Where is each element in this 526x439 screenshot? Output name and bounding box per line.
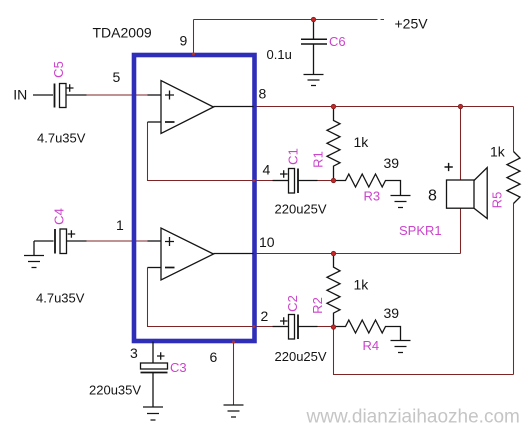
svg-text:6: 6: [210, 349, 218, 365]
svg-text:0.1u: 0.1u: [267, 47, 292, 62]
svg-text:220u35V: 220u35V: [89, 383, 141, 398]
svg-text:C5: C5: [51, 61, 66, 78]
svg-text:39: 39: [384, 305, 400, 321]
svg-text:5: 5: [113, 69, 121, 85]
svg-text:220u25V: 220u25V: [275, 349, 327, 364]
svg-text:3: 3: [130, 345, 138, 361]
svg-text:1k: 1k: [354, 134, 370, 150]
svg-text:39: 39: [384, 155, 400, 171]
svg-text:TDA2009: TDA2009: [93, 24, 152, 40]
svg-text:R5: R5: [490, 192, 505, 209]
svg-text:R1: R1: [311, 151, 326, 168]
svg-text:R3: R3: [364, 189, 381, 204]
svg-text:220u25V: 220u25V: [275, 202, 327, 217]
svg-text:4: 4: [263, 162, 271, 178]
svg-text:+25V: +25V: [395, 16, 429, 32]
svg-text:SPKR1: SPKR1: [399, 223, 442, 238]
svg-text:8: 8: [428, 188, 437, 205]
svg-text:C4: C4: [52, 208, 67, 225]
svg-text:C6: C6: [329, 34, 346, 49]
svg-text:10: 10: [259, 234, 275, 250]
svg-text:4.7u35V: 4.7u35V: [36, 291, 85, 306]
svg-text:R2: R2: [310, 297, 325, 314]
svg-text:1: 1: [116, 217, 124, 233]
svg-text:C3: C3: [170, 360, 187, 375]
svg-text:1k: 1k: [354, 277, 370, 293]
svg-text:IN: IN: [13, 87, 27, 103]
svg-text:2: 2: [261, 308, 269, 324]
svg-text:9: 9: [180, 32, 188, 48]
svg-text:www.dianziaihaozhe.com: www.dianziaihaozhe.com: [306, 407, 520, 428]
svg-text:8: 8: [259, 86, 267, 102]
svg-text:C2: C2: [285, 295, 300, 312]
svg-text:1k: 1k: [490, 144, 506, 160]
svg-text:R4: R4: [363, 338, 380, 353]
svg-text:C1: C1: [286, 148, 301, 165]
svg-text:4.7u35V: 4.7u35V: [37, 131, 86, 146]
